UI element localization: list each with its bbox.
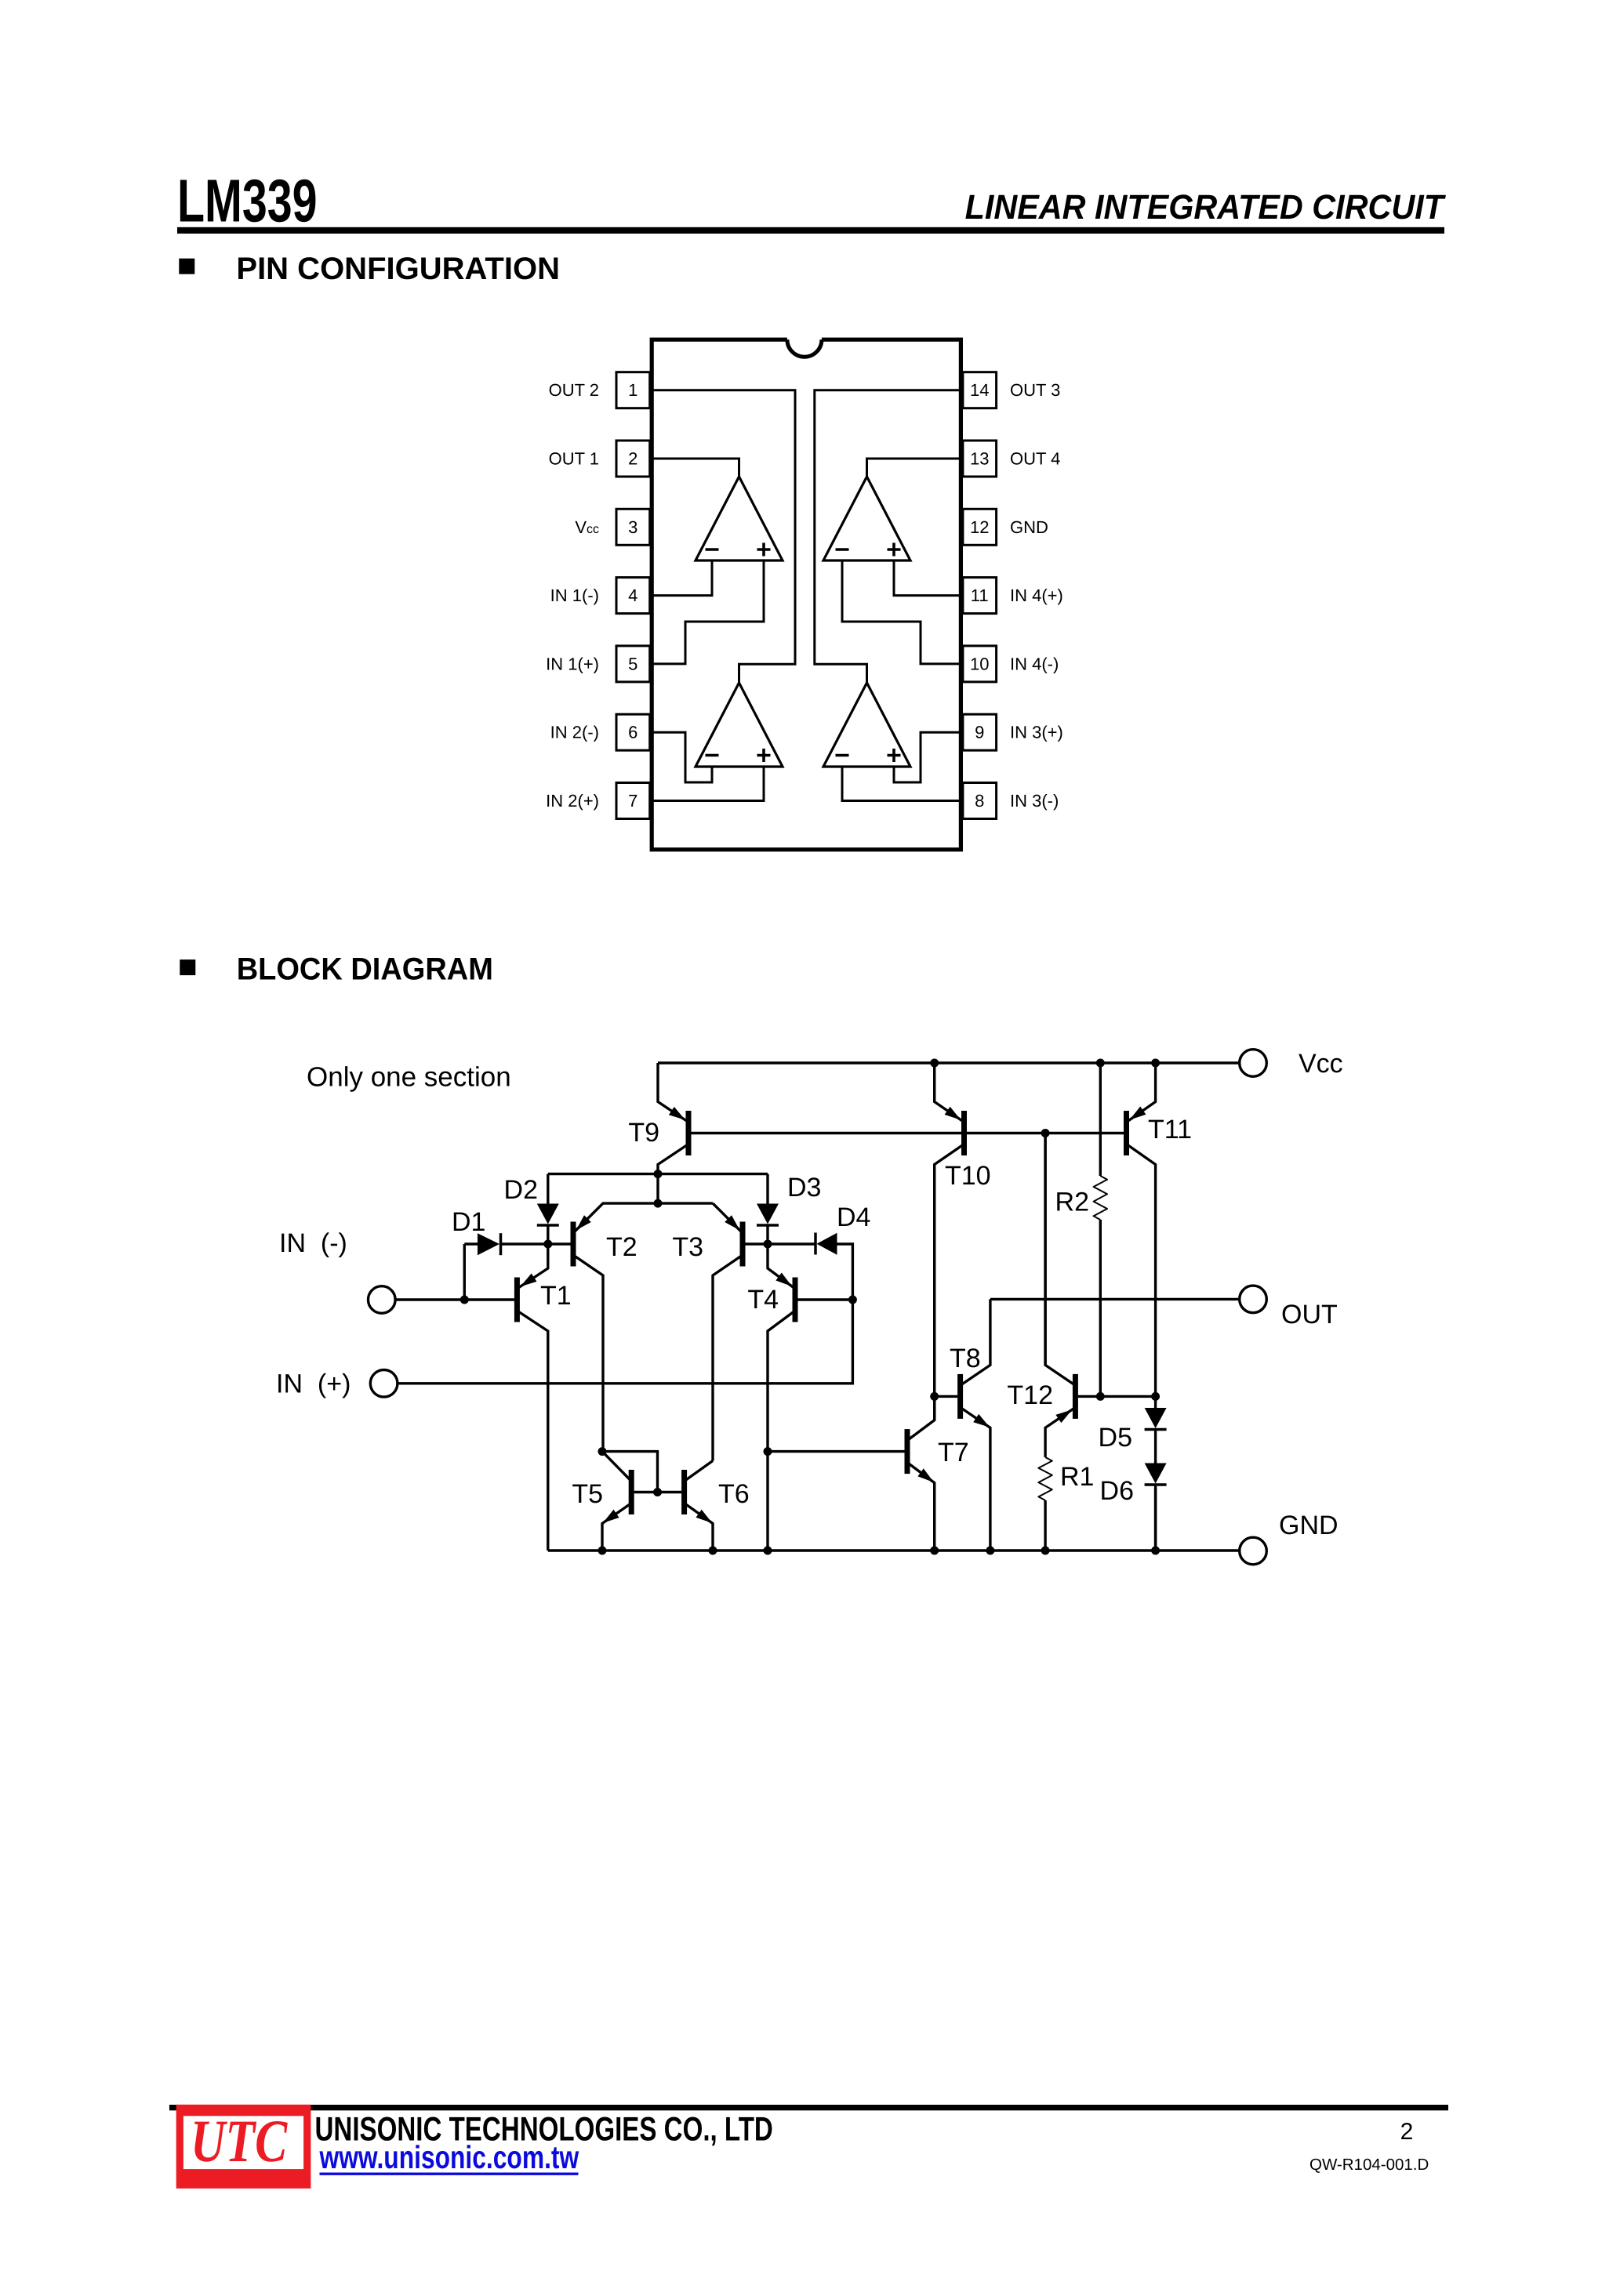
svg-text:T4: T4 bbox=[747, 1285, 779, 1315]
svg-text:5: 5 bbox=[628, 654, 637, 673]
svg-text:T10: T10 bbox=[945, 1161, 991, 1191]
svg-text:T8: T8 bbox=[950, 1344, 981, 1373]
svg-text:IN 3(-): IN 3(-) bbox=[1010, 791, 1059, 811]
svg-text:T11: T11 bbox=[1148, 1115, 1192, 1144]
svg-text:LINEAR INTEGRATED CIRCUIT: LINEAR INTEGRATED CIRCUIT bbox=[965, 188, 1446, 227]
svg-text:T2: T2 bbox=[606, 1232, 637, 1262]
svg-text:BLOCK DIAGRAM: BLOCK DIAGRAM bbox=[237, 952, 493, 987]
svg-text:OUT 1: OUT 1 bbox=[549, 449, 599, 469]
svg-text:14: 14 bbox=[970, 380, 989, 400]
svg-text:6: 6 bbox=[628, 723, 637, 742]
svg-text:GND: GND bbox=[1279, 1511, 1338, 1540]
svg-text:OUT 2: OUT 2 bbox=[549, 380, 599, 400]
svg-text:T12: T12 bbox=[1007, 1380, 1053, 1410]
svg-text:IN 4(-): IN 4(-) bbox=[1010, 654, 1059, 673]
svg-text:9: 9 bbox=[975, 723, 984, 742]
svg-text:3: 3 bbox=[628, 517, 637, 537]
svg-text:OUT: OUT bbox=[1281, 1300, 1338, 1329]
svg-text:IN 2(-): IN 2(-) bbox=[550, 723, 599, 742]
svg-text:7: 7 bbox=[628, 791, 637, 811]
svg-text:IN 4(+): IN 4(+) bbox=[1010, 586, 1063, 605]
svg-text:IN 1(+): IN 1(+) bbox=[546, 654, 599, 673]
svg-text:T6: T6 bbox=[718, 1479, 750, 1509]
svg-text:Vcc: Vcc bbox=[1299, 1049, 1343, 1079]
svg-text:IN (-): IN (-) bbox=[279, 1228, 347, 1258]
svg-text:IN (+): IN (+) bbox=[276, 1369, 351, 1399]
svg-text:2: 2 bbox=[628, 449, 637, 469]
svg-text:D2: D2 bbox=[504, 1175, 538, 1205]
svg-text:GND: GND bbox=[1010, 517, 1048, 537]
svg-text:www.unisonic.com.tw: www.unisonic.com.tw bbox=[319, 2139, 579, 2175]
svg-text:R2: R2 bbox=[1055, 1188, 1089, 1217]
svg-text:2: 2 bbox=[1400, 2119, 1414, 2145]
svg-text:PIN CONFIGURATION: PIN CONFIGURATION bbox=[236, 252, 560, 286]
svg-text:IN 2(+): IN 2(+) bbox=[546, 791, 599, 811]
svg-text:1: 1 bbox=[628, 380, 637, 400]
svg-text:4: 4 bbox=[628, 586, 637, 605]
svg-text:Only one section: Only one section bbox=[307, 1062, 511, 1093]
svg-text:T7: T7 bbox=[938, 1438, 969, 1467]
svg-text:QW-R104-001.D: QW-R104-001.D bbox=[1309, 2156, 1429, 2174]
svg-text:T5: T5 bbox=[572, 1479, 603, 1509]
svg-text:OUT 4: OUT 4 bbox=[1010, 449, 1060, 469]
svg-text:8: 8 bbox=[975, 791, 984, 811]
svg-text:LM339: LM339 bbox=[177, 168, 318, 235]
svg-text:D1: D1 bbox=[452, 1207, 485, 1237]
svg-text:10: 10 bbox=[970, 654, 989, 673]
svg-text:D5: D5 bbox=[1099, 1423, 1132, 1453]
svg-text:IN 1(-): IN 1(-) bbox=[550, 586, 599, 605]
svg-text:D4: D4 bbox=[837, 1202, 870, 1232]
svg-text:12: 12 bbox=[970, 517, 989, 537]
svg-text:R1: R1 bbox=[1060, 1462, 1094, 1492]
svg-text:D3: D3 bbox=[787, 1173, 821, 1202]
svg-text:11: 11 bbox=[971, 586, 989, 605]
svg-text:D6: D6 bbox=[1100, 1476, 1134, 1506]
svg-text:T1: T1 bbox=[540, 1281, 572, 1311]
svg-text:13: 13 bbox=[970, 449, 989, 469]
svg-text:T9: T9 bbox=[628, 1118, 659, 1148]
svg-text:UTC: UTC bbox=[191, 2107, 289, 2174]
svg-text:IN 3(+): IN 3(+) bbox=[1010, 723, 1063, 742]
svg-text:OUT 3: OUT 3 bbox=[1010, 380, 1060, 400]
svg-text:T3: T3 bbox=[672, 1232, 703, 1262]
svg-text:Vcc: Vcc bbox=[575, 517, 599, 537]
